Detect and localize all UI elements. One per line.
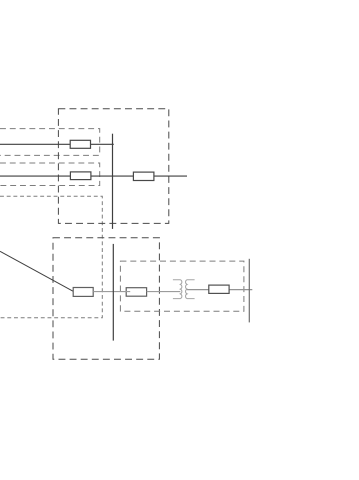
branch element R1 on wire W1 [70,140,90,148]
wire W2 (second feeder) [0,175,187,177]
wire W4 (gray, R4 to R5, stub enters R5) [93,291,130,293]
dashed frame box C (left tall, cut off) [0,196,102,317]
bus BUS2 (lower vertical busbar) [112,244,114,341]
branch element R5 (lower, inside box F left) [126,288,146,297]
branch element R4 (lower left) [73,288,93,297]
bus BUS1 (upper vertical busbar) [112,134,114,229]
transformer T1 right winding [186,280,195,299]
bus BUS3 (right vertical busbar) [248,259,250,323]
dashed frame box B (left, cut off) [0,163,100,186]
branch element R3 right of bus on wire W2 [133,172,154,180]
dashed frame box E (lower station) [53,238,159,359]
branch element R2 on wire W2 [70,172,91,180]
transformer T1 left winding [173,280,182,299]
wire W1 (top feeder) [0,143,114,145]
wire W5 (gray, R5 to transformer) [147,291,181,293]
dashed frame box D (upper station) [58,109,168,224]
dashed frame box A (left, cut off) [0,129,100,156]
wire W3 diagonal line [0,251,73,291]
dashed frame box F (transformer bay) [120,261,243,311]
branch element R6 (lower right) [209,285,229,293]
wire W6 (gray, transformer to right bus) [187,289,252,291]
